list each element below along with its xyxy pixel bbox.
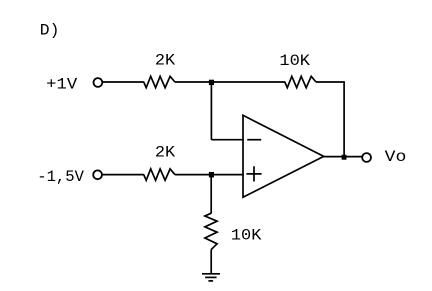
wire node B down to R4 — [210, 175, 212, 214]
wire op-amp output to terminal T3 — [324, 156, 363, 158]
wire node A down — [210, 82, 212, 140]
wire R2 to feedback corner — [316, 81, 344, 83]
output node junction dot — [342, 155, 347, 160]
op-amp inverting input minus sign — [247, 139, 261, 141]
terminal T3 (output circle) — [362, 153, 371, 162]
svg-text:+1V: +1V — [46, 76, 78, 94]
ground symbol — [202, 274, 220, 281]
svg-text:D): D) — [40, 21, 60, 39]
resistor R1 (2K, top input) — [144, 76, 175, 87]
wire R4 to ground — [210, 250, 212, 274]
op-amp non-inverting input plus sign — [246, 166, 261, 181]
terminal T1 (+1V input circle) — [94, 78, 103, 87]
wire T1 to R1 — [103, 81, 145, 83]
wire R3 to op-amp non-inverting input through node B — [175, 174, 244, 176]
svg-text:-1,5V: -1,5V — [37, 168, 84, 186]
resistor R4 (10K, vertical to ground) — [205, 213, 217, 249]
resistor R2 (10K, feedback) — [285, 76, 316, 87]
wire T2 to R3 — [103, 174, 145, 176]
svg-text:10K: 10K — [231, 226, 262, 244]
resistor R3 (2K, bottom input) — [144, 169, 175, 180]
wire feedback vertical down to output node — [343, 81, 345, 156]
node B junction dot — [209, 172, 214, 177]
svg-text:Vo: Vo — [385, 148, 407, 166]
wire to op-amp inverting input — [211, 139, 243, 141]
op-amp U1 — [243, 115, 324, 197]
wire R1 to R2 through node A — [175, 81, 285, 83]
node A junction dot — [209, 80, 214, 85]
svg-text:2K: 2K — [155, 52, 176, 70]
terminal T2 (-1,5V input circle) — [93, 170, 102, 179]
svg-text:2K: 2K — [155, 144, 176, 162]
svg-text:10K: 10K — [279, 52, 311, 70]
